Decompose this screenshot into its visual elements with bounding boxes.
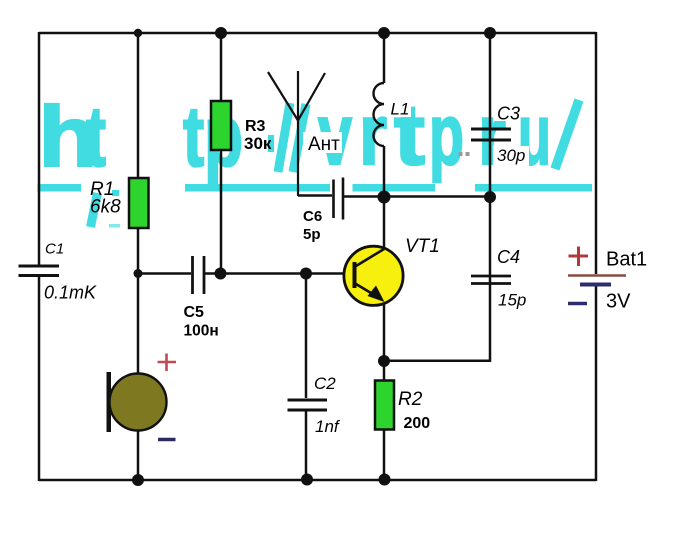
watermark text ht	[39, 87, 580, 185]
svg-text:C2: C2	[314, 374, 336, 393]
svg-text:5p: 5p	[303, 226, 321, 243]
wire mic top	[137, 273, 140, 374]
svg-text:15p: 15p	[498, 291, 526, 310]
node C3 bottom	[484, 191, 496, 203]
svg-text:C5: C5	[184, 304, 205, 321]
battery Bat1 positive plate	[568, 274, 626, 277]
svg-text:p: p	[429, 87, 464, 183]
svg-text:r: r	[478, 87, 506, 183]
node R3 bottom	[215, 268, 227, 280]
wire bottom rail	[39, 479, 596, 482]
wire R3 branch top	[220, 33, 223, 101]
wire left rail upper	[38, 32, 41, 265]
resistor R2	[375, 381, 394, 430]
inductor L1	[374, 83, 384, 146]
resistor R3	[211, 101, 231, 150]
svg-text:0.1mK: 0.1mK	[44, 283, 97, 303]
svg-text:Bat1: Bat1	[606, 249, 647, 271]
node R1 top	[134, 29, 142, 37]
node base left	[134, 269, 143, 278]
wire base row left	[138, 272, 191, 275]
wire left rail lower	[38, 277, 41, 481]
svg-text:R3: R3	[245, 118, 266, 135]
node collector	[378, 191, 391, 204]
mic plus	[158, 354, 177, 372]
svg-text:6k8: 6k8	[90, 197, 121, 218]
svg-text:VT1: VT1	[405, 236, 440, 257]
capacitor C3	[471, 129, 511, 140]
gray dots ..	[459, 152, 463, 156]
wire R2 bottom	[383, 430, 386, 480]
wire C3 branch	[489, 33, 492, 197]
svg-text:30p: 30p	[497, 146, 525, 165]
node L1 top	[378, 27, 390, 39]
capacitor C1	[19, 266, 60, 276]
wire C4 branch	[384, 197, 490, 361]
capacitor C6	[334, 178, 344, 220]
svg-text:1nf: 1nf	[315, 417, 341, 436]
wire collector	[383, 197, 386, 250]
watermark underline bars	[38, 184, 593, 192]
svg-text:C4: C4	[497, 247, 520, 267]
svg-text:L1: L1	[391, 100, 410, 119]
antenna	[268, 71, 325, 196]
svg-text:C1: C1	[45, 240, 64, 257]
wire R3 bottom	[220, 150, 223, 273]
wire right rail lower	[595, 286, 598, 481]
capacitor C2	[288, 400, 328, 410]
wire C6 to collector node	[344, 195, 490, 198]
capacitor C4	[471, 276, 511, 284]
node C2 top	[300, 268, 312, 280]
wire mic bottom	[137, 430, 140, 480]
wire emitter	[383, 302, 386, 361]
svg-text:Ант: Ант	[308, 134, 340, 155]
wire top rail	[39, 32, 596, 35]
node R3 top	[215, 27, 227, 39]
wire base row right	[205, 272, 354, 275]
svg-text:C6: C6	[303, 208, 322, 225]
node emitter	[378, 355, 390, 367]
node C2 bottom	[301, 474, 313, 486]
svg-text:C3: C3	[497, 103, 520, 123]
white patches over watermark	[303, 99, 529, 167]
wire R1 to base node	[137, 228, 140, 273]
mic minus	[158, 438, 176, 442]
svg-text:t: t	[86, 90, 106, 185]
wire R1 branch top	[137, 33, 140, 178]
wire right rail upper	[595, 32, 598, 274]
svg-text:100н: 100н	[184, 323, 219, 340]
wire antenna feed	[298, 194, 332, 197]
microphone plate	[107, 372, 112, 432]
wire L1 top	[383, 33, 386, 83]
wire C2 branch upper	[305, 273, 308, 398]
wire R2 top	[383, 361, 386, 381]
svg-text:R2: R2	[398, 389, 423, 410]
svg-text:3V: 3V	[606, 291, 631, 313]
node C3 top	[484, 27, 496, 39]
battery minus	[568, 302, 587, 306]
battery plus	[569, 247, 589, 267]
watermark second row remnant slash	[91, 193, 98, 227]
node R2 bottom	[379, 474, 391, 486]
microphone body	[110, 374, 167, 431]
capacitor C5	[193, 256, 205, 294]
watermark slash after ru	[555, 100, 579, 169]
resistor R1	[129, 178, 149, 228]
svg-text:u: u	[518, 87, 551, 183]
wire C2 branch lower	[305, 411, 308, 480]
transistor VT1	[344, 246, 403, 305]
watermark colon sliver	[269, 136, 273, 151]
watermark slashes //	[278, 103, 306, 172]
battery negative plate	[580, 283, 611, 287]
node mic bottom	[132, 474, 144, 486]
svg-text:200: 200	[404, 415, 431, 432]
svg-text:30к: 30к	[244, 134, 272, 153]
wire L1 bottom	[383, 146, 386, 197]
